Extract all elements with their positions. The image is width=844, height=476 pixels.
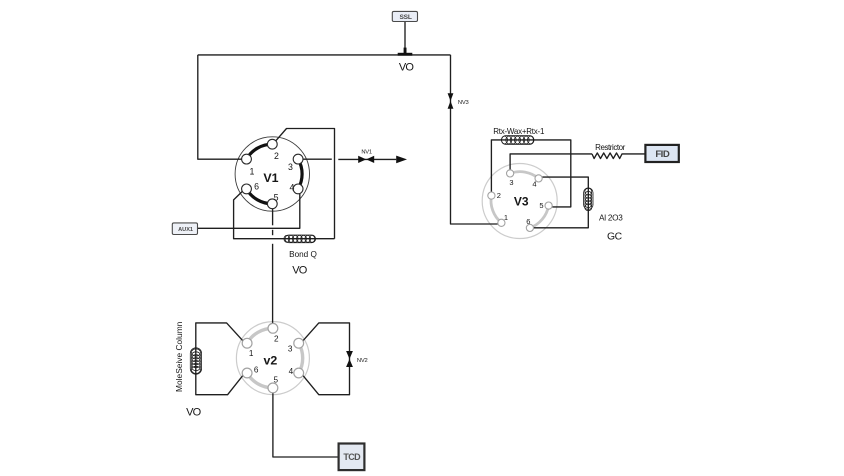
svg-text:NV1: NV1: [361, 149, 372, 155]
svg-text:NV2: NV2: [357, 358, 368, 364]
svg-text:SSL: SSL: [399, 14, 411, 21]
svg-text:3: 3: [288, 345, 293, 354]
svg-text:VO: VO: [186, 406, 202, 418]
svg-text:2: 2: [274, 151, 279, 161]
svg-text:5: 5: [274, 376, 279, 385]
svg-text:FID: FID: [655, 149, 670, 160]
svg-text:5: 5: [539, 201, 543, 210]
svg-text:6: 6: [526, 217, 530, 226]
svg-text:3: 3: [509, 178, 513, 187]
svg-text:VO: VO: [399, 62, 415, 74]
svg-text:Rtx-Wax+Rtx-1: Rtx-Wax+Rtx-1: [493, 127, 545, 136]
svg-text:MoleSeive Column: MoleSeive Column: [174, 321, 184, 392]
svg-text:6: 6: [254, 181, 259, 191]
svg-text:4: 4: [289, 183, 294, 193]
svg-text:V1: V1: [263, 171, 278, 185]
svg-text:2: 2: [497, 191, 501, 200]
svg-text:2: 2: [274, 335, 279, 344]
svg-text:GC: GC: [607, 232, 623, 243]
svg-text:1: 1: [250, 167, 255, 177]
svg-text:1: 1: [504, 213, 508, 222]
svg-text:Bond Q: Bond Q: [289, 250, 317, 259]
svg-text:TCD: TCD: [343, 452, 361, 462]
svg-text:4: 4: [289, 367, 294, 376]
svg-text:Restrictor: Restrictor: [595, 143, 626, 152]
svg-text:NV3: NV3: [458, 100, 469, 106]
svg-text:5: 5: [274, 192, 279, 202]
svg-text:3: 3: [288, 162, 293, 172]
svg-text:1: 1: [249, 349, 254, 358]
svg-text:AUX1: AUX1: [178, 227, 193, 233]
svg-text:6: 6: [254, 366, 259, 375]
svg-text:v2: v2: [264, 354, 278, 368]
svg-text:4: 4: [532, 180, 536, 189]
svg-text:VO: VO: [292, 265, 308, 277]
svg-text:V3: V3: [514, 194, 529, 208]
svg-text:Al 2O3: Al 2O3: [599, 214, 623, 223]
